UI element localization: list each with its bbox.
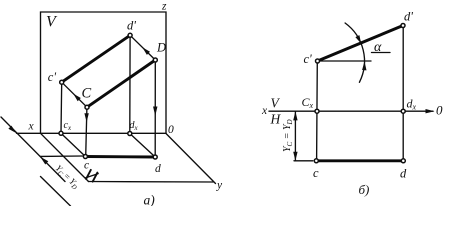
svg-text:б): б) [359,182,370,197]
dimension line vertical [294,111,296,161]
svg-text:а): а) [144,193,156,207]
point c [83,155,87,159]
alpha underline [372,52,391,54]
point c' [316,59,320,63]
depth line cx to c [61,133,85,156]
point Cx [315,109,319,113]
point d [153,155,157,159]
arrow line D to d' [130,35,155,60]
extension line from c [294,160,313,162]
arrowhead at d' [142,47,150,55]
extra parallel line below dimension text [41,177,71,207]
arrowhead C down [84,113,88,122]
vertical line c' Cx c [316,61,319,161]
projection line d' to dx [129,35,131,133]
point d [401,159,405,163]
svg-text:c: c [84,160,89,172]
point d' [401,24,405,28]
svg-text:c: c [313,166,319,180]
projection line D to d [154,60,156,157]
svg-text:d: d [400,167,407,181]
arrowhead at c' [73,94,81,102]
point d' [128,33,132,37]
svg-text:z: z [161,1,167,13]
arrowhead x-axis right [426,109,435,113]
x-axis [269,110,433,112]
svg-text:d': d' [404,9,413,23]
dimension line Yc diagonal [1,117,65,182]
point D [153,58,157,62]
arrowhead D down [153,107,157,117]
point c' [60,80,64,84]
label H (skewed glyph, inside plane H) [85,170,98,182]
arrowhead dim lower [40,157,48,165]
y-axis [166,134,216,184]
angle arc [345,23,364,82]
horizontal ray from c' [318,60,372,62]
svg-text:y: y [216,180,223,192]
svg-text:x: x [28,121,35,133]
plane H left edge [41,133,89,181]
projection line C to c [86,107,87,156]
extension line from c to dimension [40,155,82,157]
point c [314,159,318,163]
svg-text:H: H [270,112,282,127]
point cx [59,131,63,135]
plane H bottom edge [89,181,214,184]
segment cd (thick) [85,155,155,158]
point dx [128,132,132,136]
point dx [401,109,405,113]
svg-text:D: D [156,40,166,54]
segment c'd' (thick) [62,35,130,82]
segment c'd' (thick) [318,26,404,62]
arrow line C to c' [62,82,87,107]
svg-text:c': c' [48,70,57,84]
arrowhead dim bottom [293,152,297,161]
arrowhead arc lower [362,61,366,70]
svg-text:d: d [155,163,161,175]
point C [85,105,89,109]
svg-text:d': d' [127,18,136,32]
plane V outline [41,12,167,133]
arrowhead arc upper [355,35,361,43]
segment cd (thick) [316,159,403,162]
svg-text:c': c' [304,52,313,66]
arrowhead dim top [293,111,297,120]
svg-text:0: 0 [168,124,174,136]
segment CD (thick) [87,60,155,107]
depth line dx to d [130,134,155,158]
svg-text:x: x [261,105,268,117]
projection line c' to cx [60,82,63,133]
svg-text:0: 0 [436,103,443,118]
svg-text:C: C [82,86,92,102]
arrowhead dim upper [8,126,16,134]
svg-text:α: α [374,40,382,55]
x-axis [17,132,167,134]
vertical line d' dx d [402,28,404,158]
